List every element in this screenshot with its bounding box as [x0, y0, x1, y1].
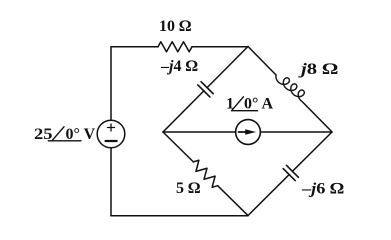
- wire: top horizontal right segment to top node: [192, 46, 248, 48]
- svg-text:10 Ω: 10 Ω: [159, 18, 191, 35]
- svg-text:0° V: 0° V: [66, 126, 96, 143]
- wire: top horizontal left segment: [111, 46, 158, 48]
- wire: top node to capacitor plate: [207, 47, 248, 88]
- wire: middle branch left segment: [163, 131, 236, 133]
- svg-text:0° A: 0° A: [244, 96, 274, 113]
- svg-text:j8 Ω: j8 Ω: [297, 61, 338, 78]
- wire: coil to right node: [303, 102, 332, 132]
- branch top-right: inductor j8 ohm: [246, 40, 338, 134]
- wire: top node to coil: [248, 47, 276, 76]
- capacitor C plate 1: [201, 82, 213, 94]
- resistor R 10ohm zigzag: [158, 42, 192, 52]
- svg-text:–j6 Ω: –j6 Ω: [301, 181, 344, 198]
- capacitor C plate 2: [198, 85, 210, 97]
- wire: left node to resistor: [163, 132, 193, 162]
- wire: left vertical bottom: [110, 148, 112, 216]
- capacitor C2 plate 1: [286, 165, 298, 177]
- current source IS circle 1/0 A: [236, 120, 261, 145]
- angle symbol slash for 1/0 A: [232, 97, 243, 110]
- voltage source minus sign: [106, 140, 117, 142]
- voltage source plus sign: [108, 124, 115, 131]
- branch bottom-right: capacitor -j6 ohm: [242, 126, 338, 222]
- svg-text:5 Ω: 5 Ω: [176, 180, 200, 197]
- angle symbol underline for 1/0 A: [232, 110, 258, 112]
- wire: middle branch right segment: [260, 131, 332, 133]
- current source arrow: [239, 131, 247, 133]
- wire: bottom horizontal: [111, 215, 248, 217]
- voltage source VS circle 25/0 V: [97, 120, 125, 148]
- wire: resistor to bottom node: [218, 186, 248, 216]
- current source arrowhead: [245, 129, 256, 134]
- angle symbol underline for 25/0 V: [48, 140, 81, 142]
- svg-text:–j4 Ω: –j4 Ω: [160, 58, 198, 75]
- inductor L coil loops: [274, 69, 308, 104]
- branch bottom-left: resistor 5 ohm: [159, 128, 251, 219]
- wire: capacitor to bottom node: [248, 175, 289, 216]
- wire: left vertical top (source to top-left corner): [110, 47, 112, 120]
- capacitor C2 plate 2: [283, 169, 295, 181]
- wire: capacitor plate to left node: [163, 91, 204, 132]
- wire: right node to capacitor: [292, 132, 332, 171]
- angle symbol slash for 25/0 V: [52, 127, 64, 141]
- resistor R 5ohm zigzag: [190, 158, 221, 189]
- branch top-left: capacitor -j4 ohm: [157, 41, 254, 139]
